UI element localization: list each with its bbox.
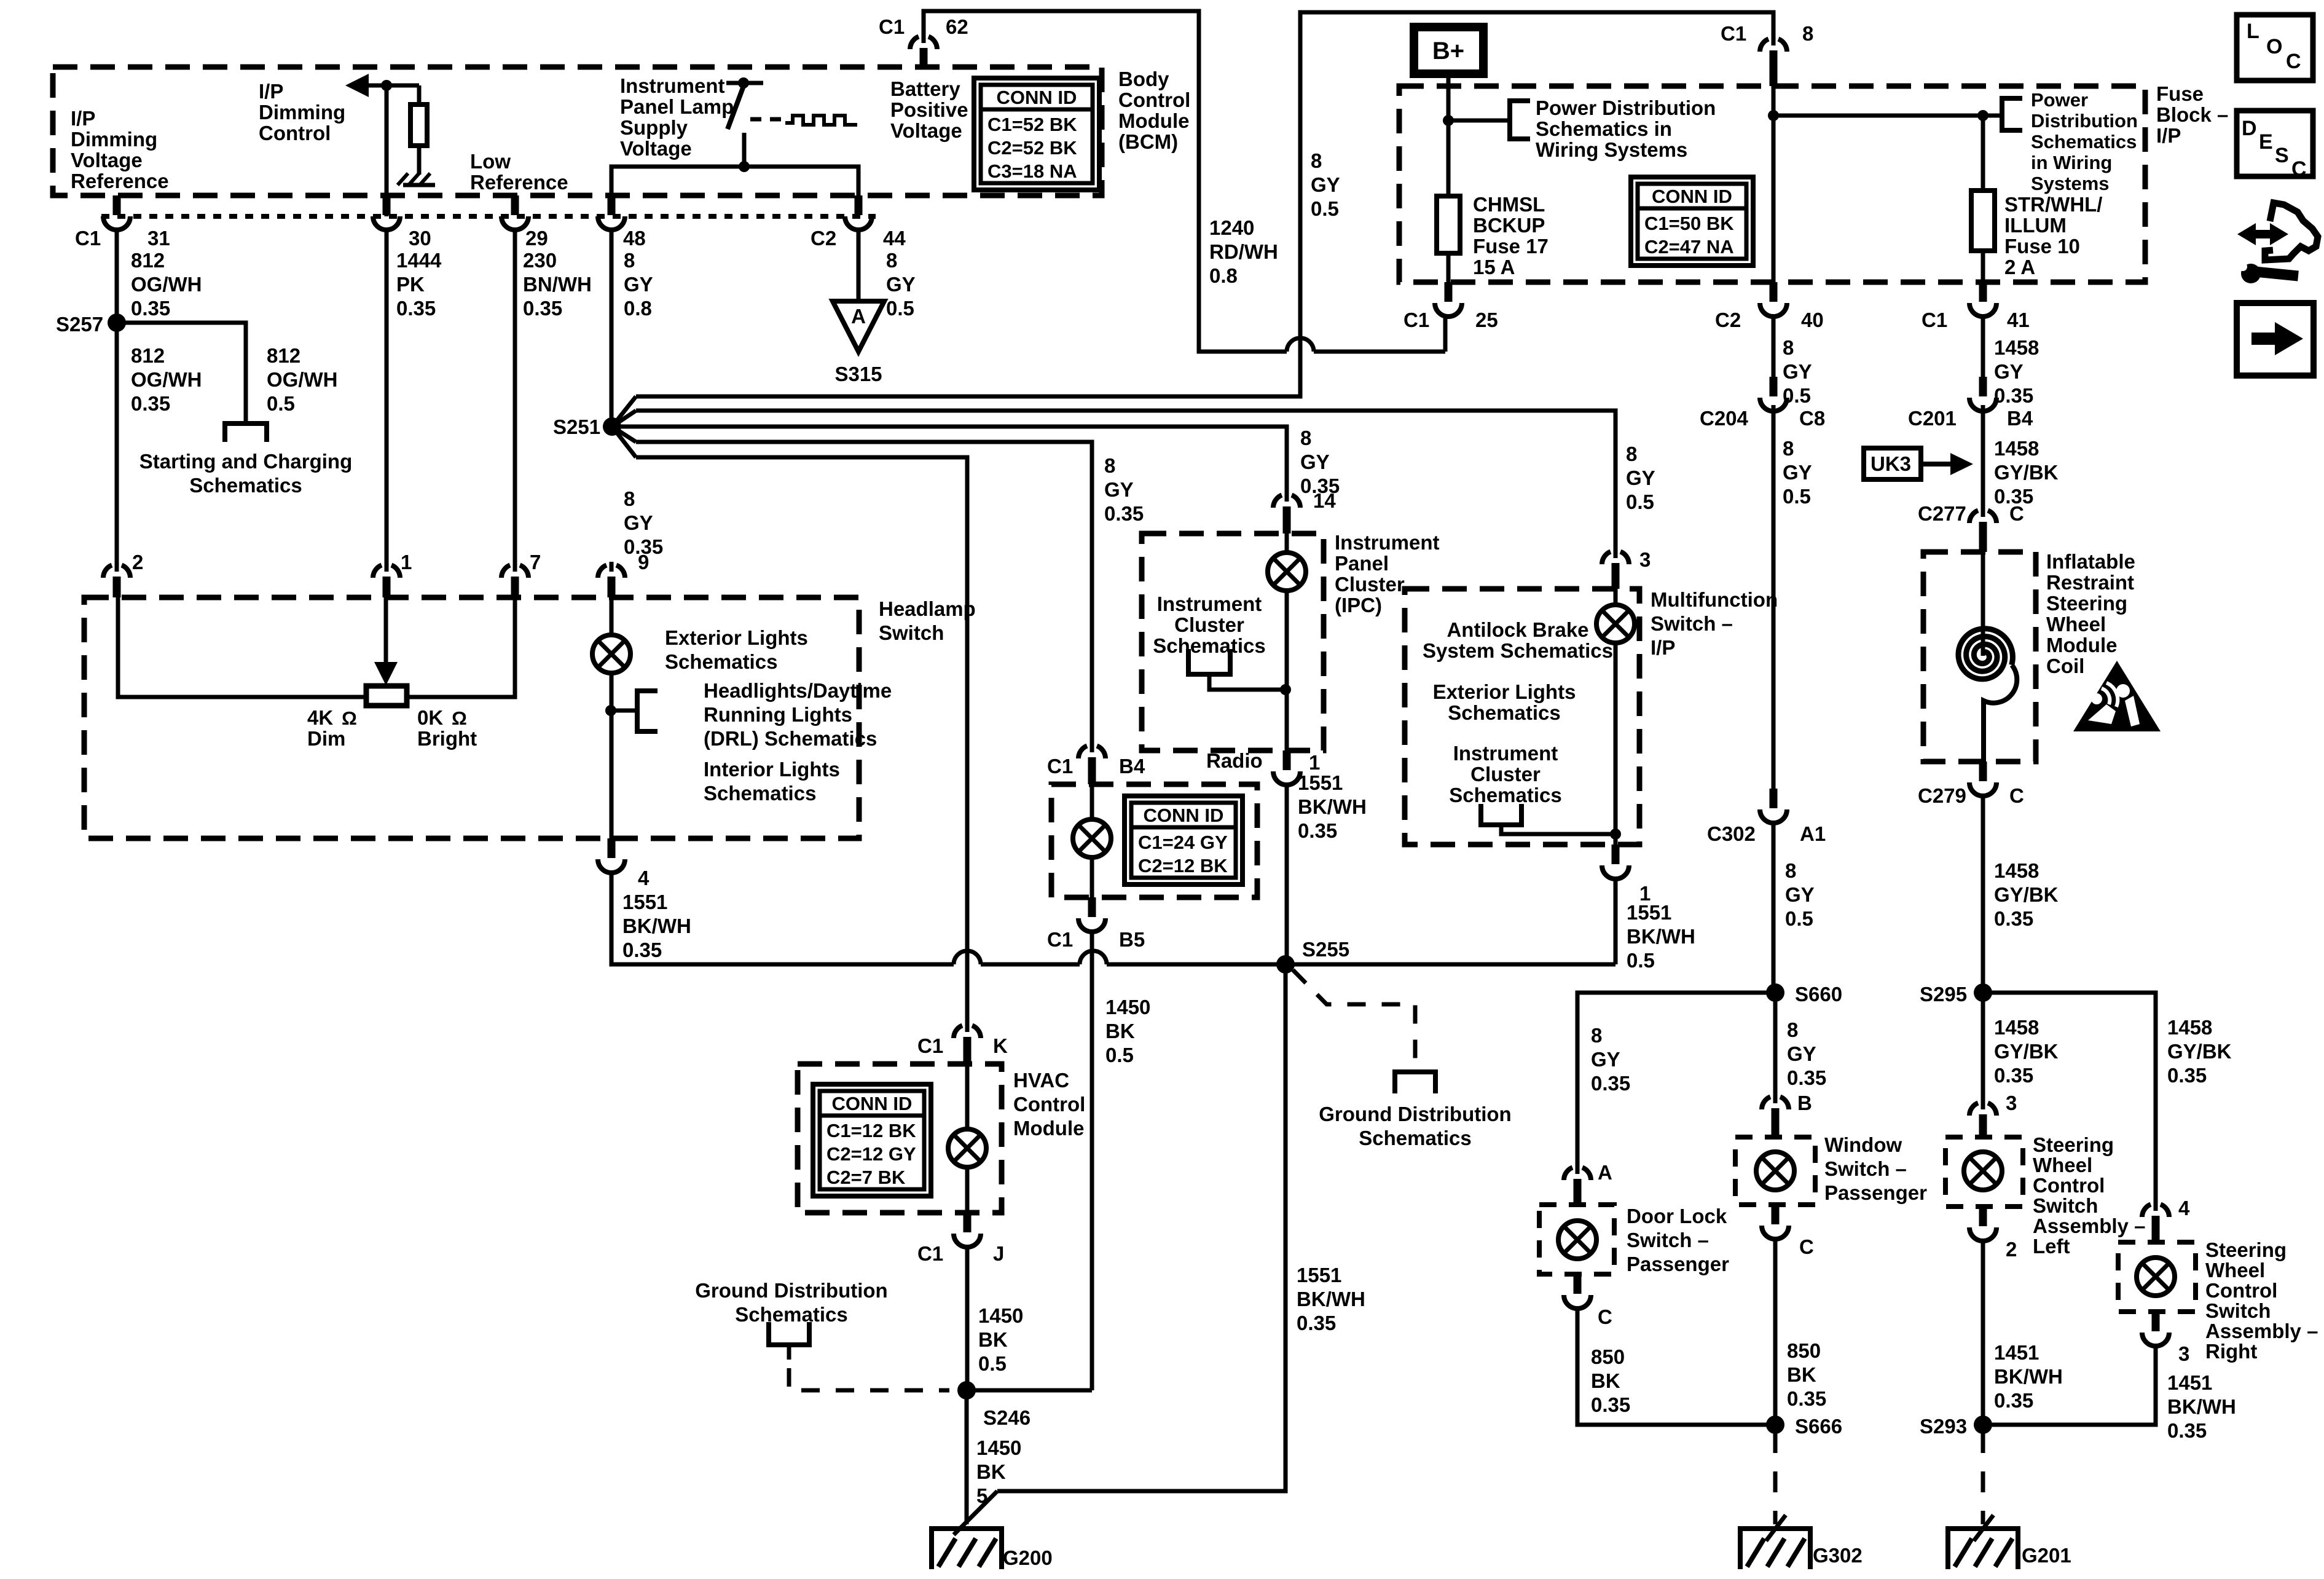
svg-text:Dim: Dim xyxy=(307,727,345,750)
svg-text:Module: Module xyxy=(1118,109,1189,132)
wire label 1451 BK/WH 0.35 (right) xyxy=(2167,1371,2236,1442)
svg-text:BK: BK xyxy=(1787,1363,1816,1386)
svg-text:C8: C8 xyxy=(1799,407,1825,430)
module box: Door Lock Switch xyxy=(1539,1205,1614,1274)
svg-text:Switch –: Switch – xyxy=(1824,1157,1907,1180)
svg-text:850: 850 xyxy=(1787,1339,1821,1362)
svg-text:0.35: 0.35 xyxy=(1787,1066,1826,1089)
svg-text:8: 8 xyxy=(1591,1024,1602,1047)
wire HVAC J down to S246 xyxy=(965,1247,970,1390)
bracket ground distribution mid xyxy=(1395,1072,1435,1093)
wire label 1240 RD/WH 0.8 xyxy=(1209,216,1278,287)
connector C201/B4 xyxy=(1969,377,1996,411)
module box: Steering Wheel Control Switch Assembly Left xyxy=(1945,1137,2023,1207)
svg-text:1: 1 xyxy=(1309,751,1320,774)
wire 1551 seg3 xyxy=(1107,963,1615,967)
svg-text:Window: Window xyxy=(1824,1133,1902,1156)
wire IPC upper xyxy=(1285,534,1289,553)
svg-text:Schematics: Schematics xyxy=(1449,784,1561,806)
label CHMSL BCKUP Fuse 17 15A xyxy=(1473,193,1549,278)
RPO box UK3 xyxy=(1864,448,1921,479)
svg-text:K: K xyxy=(993,1034,1008,1057)
CONN ID table radio xyxy=(1125,796,1242,884)
svg-text:0.5: 0.5 xyxy=(886,297,914,320)
svg-text:Fuse: Fuse xyxy=(2156,82,2204,105)
label I/P Dimming Voltage Reference xyxy=(71,107,169,192)
connector C302/A1 xyxy=(1760,789,1787,823)
svg-text:Steering: Steering xyxy=(2033,1133,2114,1156)
svg-text:B+: B+ xyxy=(1432,37,1464,65)
node fuse10 feed junction xyxy=(1768,110,1779,121)
wire label 8 GY 0.8 xyxy=(624,249,653,320)
wire wiper from pin1 xyxy=(384,597,388,667)
svg-text:BK/WH: BK/WH xyxy=(1994,1365,2063,1388)
svg-text:1451: 1451 xyxy=(2167,1371,2212,1394)
svg-text:812: 812 xyxy=(267,344,300,367)
svg-text:C: C xyxy=(1598,1305,1612,1328)
svg-text:Switch –: Switch – xyxy=(1627,1229,1709,1251)
svg-text:Exterior Lights: Exterior Lights xyxy=(1433,680,1576,703)
wire label 8 GY 0.35 (window) xyxy=(1787,1018,1826,1089)
svg-text:Antilock Brake: Antilock Brake xyxy=(1447,618,1588,641)
SRS airbag warning triangle xyxy=(2073,661,2161,731)
svg-text:Running Lights: Running Lights xyxy=(704,703,852,726)
wire pin30 to connector1 xyxy=(385,230,389,564)
svg-text:I/P: I/P xyxy=(2156,124,2181,147)
node B+ junction xyxy=(1443,115,1454,126)
wire C201 to C277 xyxy=(1981,405,1985,510)
wire doorlock C down xyxy=(1577,1309,1775,1425)
svg-text:3: 3 xyxy=(1639,548,1651,571)
arrow UK3 xyxy=(1921,462,1957,467)
wire 9 inside box lower xyxy=(610,673,614,838)
svg-text:HVAC: HVAC xyxy=(1013,1069,1069,1092)
label Low Reference xyxy=(470,150,568,194)
label Power Distribution Schematics (2) xyxy=(2031,89,2138,194)
svg-text:A1: A1 xyxy=(1800,822,1826,845)
wire fuse10 to box edge xyxy=(1981,251,1985,282)
module box: Body Control Module (BCM) xyxy=(53,67,1102,195)
connector C1/B5 radio xyxy=(1078,897,1105,932)
connector 4 xyxy=(598,838,625,873)
svg-text:Wheel: Wheel xyxy=(2205,1259,2265,1282)
svg-text:CONN ID: CONN ID xyxy=(832,1093,913,1114)
label Steering Wheel Control Switch Assembly - Left xyxy=(2033,1133,2145,1258)
svg-text:1458: 1458 xyxy=(2167,1016,2212,1039)
connector pin 30 xyxy=(373,195,400,230)
label STR/WHL/ILLUM Fuse 10 2A xyxy=(2004,193,2102,278)
connector C1/8 fuse block xyxy=(1760,36,1787,86)
svg-text:A: A xyxy=(851,305,866,328)
wire riser multifunction pin1 xyxy=(1614,879,1618,964)
svg-text:4K: 4K xyxy=(307,706,333,729)
svg-text:Schematics in: Schematics in xyxy=(1536,117,1672,140)
svg-text:C201: C201 xyxy=(1908,407,1957,430)
svg-text:Instrument: Instrument xyxy=(620,74,725,97)
label Instrument Panel Cluster (IPC) xyxy=(1335,531,1440,616)
connector 3 multifunction xyxy=(1602,548,1629,589)
svg-text:B4: B4 xyxy=(1119,755,1145,778)
svg-text:Multifunction: Multifunction xyxy=(1651,588,1778,611)
wire 1551 seg2 xyxy=(981,963,1080,967)
svg-text:Radio: Radio xyxy=(1206,749,1263,772)
label Door Lock Switch - Passenger xyxy=(1627,1205,1729,1275)
svg-text:Starting and Charging: Starting and Charging xyxy=(139,450,353,473)
svg-text:C: C xyxy=(2009,784,2024,807)
svg-text:Steering: Steering xyxy=(2046,592,2127,615)
label Instrument Cluster Schematics (mf) xyxy=(1449,742,1561,806)
wire S246 to G200 xyxy=(965,1390,969,1524)
svg-text:(IPC): (IPC) xyxy=(1335,594,1382,616)
svg-text:GY/BK: GY/BK xyxy=(1994,461,2059,484)
svg-text:Exterior Lights: Exterior Lights xyxy=(665,626,808,649)
svg-text:Positive: Positive xyxy=(890,98,968,121)
svg-text:812: 812 xyxy=(131,249,165,272)
dashed link switch xyxy=(750,117,782,122)
svg-text:B4: B4 xyxy=(2007,407,2033,430)
svg-text:C2=7 BK: C2=7 BK xyxy=(826,1167,906,1188)
wire label 1458 GY 0.35 xyxy=(1994,336,2039,407)
svg-text:BK: BK xyxy=(1105,1020,1135,1042)
svg-text:Fuse 10: Fuse 10 xyxy=(2004,235,2080,258)
svg-text:Power: Power xyxy=(2031,89,2088,111)
svg-text:S666: S666 xyxy=(1795,1415,1842,1438)
label Instrument Panel Lamp Supply Voltage xyxy=(620,74,734,160)
label Headlamp Switch xyxy=(879,597,976,644)
wire pin44 to S315 xyxy=(857,230,861,301)
svg-text:850: 850 xyxy=(1591,1345,1625,1368)
node S251 xyxy=(603,417,621,436)
connector 1 (IPC) xyxy=(1273,750,1300,785)
label Exterior Lights Schematics (mf) xyxy=(1433,680,1576,724)
connector C277/C xyxy=(1969,507,1996,552)
wire label 1450 BK 0.5 (B5) xyxy=(1105,996,1150,1066)
lamp: right steering switch illumination xyxy=(2137,1258,2175,1296)
wire: BCM internal bus xyxy=(611,167,858,195)
dashed path to S246 xyxy=(789,1368,949,1390)
connector 14 xyxy=(1273,492,1300,534)
svg-text:GY: GY xyxy=(624,273,653,296)
icon box DESC xyxy=(2237,111,2313,176)
svg-text:Interior Lights: Interior Lights xyxy=(704,758,840,781)
wire label 1551 BK/WH 0.5 xyxy=(1627,901,1695,972)
svg-text:8: 8 xyxy=(1785,859,1796,882)
svg-text:C2=52 BK: C2=52 BK xyxy=(987,137,1077,159)
label Body Control Module (BCM) xyxy=(1118,68,1190,153)
svg-text:Control: Control xyxy=(2033,1174,2105,1197)
svg-text:Voltage: Voltage xyxy=(620,137,692,160)
connector C1/41 xyxy=(1969,282,1996,317)
label HVAC Control Module xyxy=(1013,1069,1085,1140)
node S295 xyxy=(1974,983,1992,1002)
node multifunction junction xyxy=(1610,829,1621,840)
svg-text:C1: C1 xyxy=(1922,309,1947,331)
wire radio internal upper xyxy=(1090,784,1094,819)
fuse STR/WHL/ILLUM Fuse 10 xyxy=(1971,191,1995,251)
label Inflatable Restraint Steering Wheel Module Coil xyxy=(2046,550,2135,677)
svg-text:0.5: 0.5 xyxy=(1627,949,1655,972)
lamp: IPC illumination xyxy=(1268,553,1306,591)
svg-text:GY: GY xyxy=(1311,173,1340,196)
wire S295 to conn3 xyxy=(1981,993,1985,1102)
svg-text:Restraint: Restraint xyxy=(2046,571,2134,594)
svg-text:1551: 1551 xyxy=(1627,901,1671,924)
svg-text:Coil: Coil xyxy=(2046,655,2084,677)
svg-text:0.35: 0.35 xyxy=(396,297,436,320)
svg-text:29: 29 xyxy=(525,227,548,250)
svg-text:0.35: 0.35 xyxy=(1104,502,1144,525)
node S293 xyxy=(1974,1416,1992,1434)
label Steering Wheel Control Switch Assembly - Right xyxy=(2205,1238,2318,1363)
ground: BCM internal xyxy=(398,166,435,185)
svg-text:C302: C302 xyxy=(1707,822,1756,845)
svg-text:BCKUP: BCKUP xyxy=(1473,214,1545,237)
svg-text:BK: BK xyxy=(978,1328,1008,1351)
svg-text:2: 2 xyxy=(132,551,143,573)
svg-text:Body: Body xyxy=(1118,68,1169,90)
fuse CHMSL BCKUP Fuse 17 xyxy=(1437,196,1460,253)
svg-text:GY: GY xyxy=(1785,883,1815,906)
bump over HVAC wire xyxy=(954,951,981,964)
svg-text:Instrument: Instrument xyxy=(1335,531,1440,554)
wire label 812 OG/WH 0.35 (pin31) xyxy=(131,249,202,320)
wire C1-62 loop xyxy=(924,11,1287,352)
svg-text:1450: 1450 xyxy=(976,1436,1021,1459)
icon wrench/service xyxy=(2237,203,2318,283)
svg-text:Control: Control xyxy=(2205,1279,2277,1302)
svg-text:OG/WH: OG/WH xyxy=(267,368,337,391)
wire 1551 horizontal xyxy=(611,873,954,964)
off-page bracket: Starting and Charging xyxy=(225,423,267,442)
node: bus junction at switch xyxy=(739,161,750,172)
svg-text:BK/WH: BK/WH xyxy=(1627,925,1695,948)
svg-text:25: 25 xyxy=(1475,309,1498,331)
lamp: left steering switch illumination xyxy=(1964,1152,2002,1190)
svg-text:3: 3 xyxy=(2006,1092,2017,1114)
connector 4 right steering xyxy=(2142,1201,2169,1242)
fan diagonal S251-2 xyxy=(612,411,636,427)
svg-text:C1: C1 xyxy=(879,15,905,38)
module box: Multifunction Switch xyxy=(1405,589,1639,845)
lamp: multifunction illumination xyxy=(1596,605,1635,643)
svg-text:C2=12 GY: C2=12 GY xyxy=(826,1143,916,1165)
svg-text:in Wiring: in Wiring xyxy=(2031,152,2112,173)
svg-text:C1: C1 xyxy=(1047,755,1073,778)
svg-text:C3=18 NA: C3=18 NA xyxy=(987,160,1077,182)
svg-text:0.35: 0.35 xyxy=(1787,1387,1826,1410)
svg-text:812: 812 xyxy=(131,344,165,367)
wire label 8 GY 0.35 (doorlock) xyxy=(1591,1024,1630,1095)
wire radio B5 down xyxy=(1090,932,1094,1390)
wire to fuse10 xyxy=(1773,116,1983,191)
svg-text:44: 44 xyxy=(883,227,906,250)
wire label 850 BK 0.35 (window) xyxy=(1787,1339,1826,1410)
svg-text:I/P: I/P xyxy=(71,107,95,130)
bump over radio wire xyxy=(1080,951,1107,964)
bump over 8GY wire xyxy=(1287,338,1314,352)
wire: switch to bus xyxy=(742,133,747,167)
svg-text:GY: GY xyxy=(1104,478,1134,501)
svg-text:0.8: 0.8 xyxy=(624,297,652,320)
wire 40 to C204 xyxy=(1772,317,1776,377)
svg-text:(DRL) Schematics: (DRL) Schematics xyxy=(704,727,877,750)
svg-text:0.5: 0.5 xyxy=(267,392,295,415)
svg-text:0.8: 0.8 xyxy=(1209,264,1238,287)
node: switch pivot xyxy=(738,77,749,89)
svg-text:8: 8 xyxy=(624,249,635,272)
ground G302 xyxy=(1740,1515,1810,1569)
wire window C down xyxy=(1773,1239,1778,1425)
svg-text:0.5: 0.5 xyxy=(1785,907,1813,930)
CONN ID table HVAC xyxy=(813,1084,931,1196)
connector C279/C xyxy=(1969,762,1996,796)
svg-text:Module: Module xyxy=(1013,1117,1084,1140)
wire multifunction lower xyxy=(1614,643,1618,845)
label Window Switch - Passenger xyxy=(1824,1133,1927,1204)
svg-text:Instrument: Instrument xyxy=(1453,742,1558,765)
svg-text:C1: C1 xyxy=(1403,309,1429,331)
wire: I/P dimming control arrow line xyxy=(353,84,419,88)
wire pot left xyxy=(118,597,366,697)
svg-text:Ω: Ω xyxy=(452,707,467,729)
svg-text:0.35: 0.35 xyxy=(1297,1312,1336,1334)
wire label 812 OG/WH 0.35 (below S257) xyxy=(131,344,202,415)
svg-text:1458: 1458 xyxy=(1994,437,2039,460)
svg-text:BK/WH: BK/WH xyxy=(2167,1395,2236,1418)
svg-text:Headlamp: Headlamp xyxy=(879,597,976,620)
svg-text:40: 40 xyxy=(1801,309,1824,331)
svg-text:4: 4 xyxy=(638,867,650,889)
svg-text:Schematics: Schematics xyxy=(704,782,816,805)
svg-text:GY: GY xyxy=(1787,1042,1816,1065)
wire to PD bracket xyxy=(1448,119,1510,123)
svg-text:0.35: 0.35 xyxy=(131,297,170,320)
svg-text:62: 62 xyxy=(946,15,968,38)
label Fuse Block - I/P xyxy=(2156,82,2228,147)
svg-text:C2: C2 xyxy=(1715,309,1741,331)
wire bracket stub mf xyxy=(1501,825,1615,834)
bracket instrument cluster xyxy=(1188,649,1230,674)
svg-text:G302: G302 xyxy=(1813,1544,1863,1567)
svg-text:C277: C277 xyxy=(1918,502,1966,525)
svg-text:8: 8 xyxy=(1802,22,1813,45)
svg-text:C2=47 NA: C2=47 NA xyxy=(1644,236,1734,258)
svg-text:Switch –: Switch – xyxy=(1651,612,1733,635)
lamp: HVAC illumination xyxy=(948,1129,986,1167)
label Antilock Brake System Schematics xyxy=(1423,618,1613,662)
wire bracket stub IPC xyxy=(1209,674,1286,690)
svg-text:Voltage: Voltage xyxy=(890,119,962,142)
ground G201 xyxy=(1948,1515,2018,1569)
svg-text:8: 8 xyxy=(1787,1018,1798,1041)
pulse waveform symbol xyxy=(785,116,857,125)
svg-text:1450: 1450 xyxy=(1105,996,1150,1018)
svg-text:C: C xyxy=(2286,50,2301,73)
wire: lamp supply switch top bar xyxy=(726,81,763,85)
connector C204/C8 xyxy=(1760,377,1787,411)
connector B window xyxy=(1762,1093,1789,1137)
svg-text:GY/BK: GY/BK xyxy=(2167,1040,2232,1063)
dashed diagonal from S255 xyxy=(1293,970,1415,1072)
svg-text:Steering: Steering xyxy=(2205,1238,2287,1261)
wire out of coil xyxy=(1984,665,2017,762)
connector 1 multifunction xyxy=(1602,845,1629,879)
ground G200 xyxy=(932,1526,1002,1569)
wire label 1450 BK 5 xyxy=(976,1436,1021,1507)
wire C204 to C302 xyxy=(1772,405,1776,789)
svg-text:8: 8 xyxy=(1783,336,1794,359)
svg-text:Wheel: Wheel xyxy=(2033,1154,2092,1176)
svg-text:I/P: I/P xyxy=(1651,636,1675,659)
svg-text:Bright: Bright xyxy=(417,727,477,750)
svg-text:Control: Control xyxy=(259,122,331,144)
svg-text:BN/WH: BN/WH xyxy=(523,273,592,296)
connector 9 xyxy=(598,562,625,597)
svg-text:Module: Module xyxy=(2046,634,2117,656)
wire S257 branch xyxy=(117,323,246,423)
off-page bracket power distribution 1 xyxy=(1510,101,1530,139)
node S246 xyxy=(957,1381,976,1400)
svg-text:STR/WHL/: STR/WHL/ xyxy=(2004,193,2102,216)
connector 1 xyxy=(373,562,400,597)
svg-text:C204: C204 xyxy=(1700,407,1749,430)
connector pin 44 (C2) xyxy=(845,195,872,230)
svg-text:Left: Left xyxy=(2033,1235,2070,1258)
svg-text:S255: S255 xyxy=(1302,938,1349,961)
svg-text:S251: S251 xyxy=(553,415,600,438)
svg-text:Fuse 17: Fuse 17 xyxy=(1473,235,1549,258)
svg-text:C1: C1 xyxy=(75,227,101,250)
connector C window xyxy=(1762,1205,1789,1239)
svg-text:C1: C1 xyxy=(1721,22,1746,45)
fan line 5 to HVAC xyxy=(636,457,967,1025)
connector pin 29 xyxy=(501,195,528,230)
wire multifunction upper xyxy=(1614,589,1618,605)
wire C302 to S660 xyxy=(1772,823,1776,993)
svg-text:C2: C2 xyxy=(811,227,836,250)
potentiometer (dimmer resistor) xyxy=(366,686,407,706)
svg-text:41: 41 xyxy=(2007,309,2030,331)
power feed B+ xyxy=(1414,27,1483,74)
label Power Distribution Schematics (1) xyxy=(1536,96,1716,161)
node: dimming control junction xyxy=(381,80,392,91)
svg-text:8: 8 xyxy=(1300,427,1311,449)
svg-text:8: 8 xyxy=(1104,454,1115,477)
svg-text:1451: 1451 xyxy=(1994,1341,2039,1364)
svg-text:Wiring Systems: Wiring Systems xyxy=(1536,138,1687,161)
svg-text:1: 1 xyxy=(401,551,412,573)
node DRL junction xyxy=(605,705,616,716)
wire label 230 BN/WH 0.35 xyxy=(523,249,592,320)
wire 41 to C201 xyxy=(1981,317,1985,377)
connector pin 48 xyxy=(598,195,625,230)
CONN ID table fuse block xyxy=(1631,177,1753,266)
wire label 850 BK 0.35 (doorlock) xyxy=(1591,1345,1630,1416)
svg-text:0K: 0K xyxy=(417,706,443,729)
svg-text:8: 8 xyxy=(1626,443,1637,465)
node fuse10 junction xyxy=(1977,110,1988,121)
svg-text:GY: GY xyxy=(1994,360,2024,383)
svg-text:0.35: 0.35 xyxy=(1300,474,1340,497)
wire label 8 GY 0.5 (multifunction) xyxy=(1626,443,1655,513)
stub bracket left xyxy=(787,1345,791,1360)
svg-text:UK3: UK3 xyxy=(1871,452,1911,475)
svg-text:Wheel: Wheel xyxy=(2046,613,2106,636)
svg-text:G200: G200 xyxy=(1003,1546,1053,1569)
svg-text:Cluster: Cluster xyxy=(1470,763,1541,786)
label Multifunction Switch - I/P xyxy=(1651,588,1778,659)
wire fuseblock vertical 8GY xyxy=(1772,86,1776,282)
